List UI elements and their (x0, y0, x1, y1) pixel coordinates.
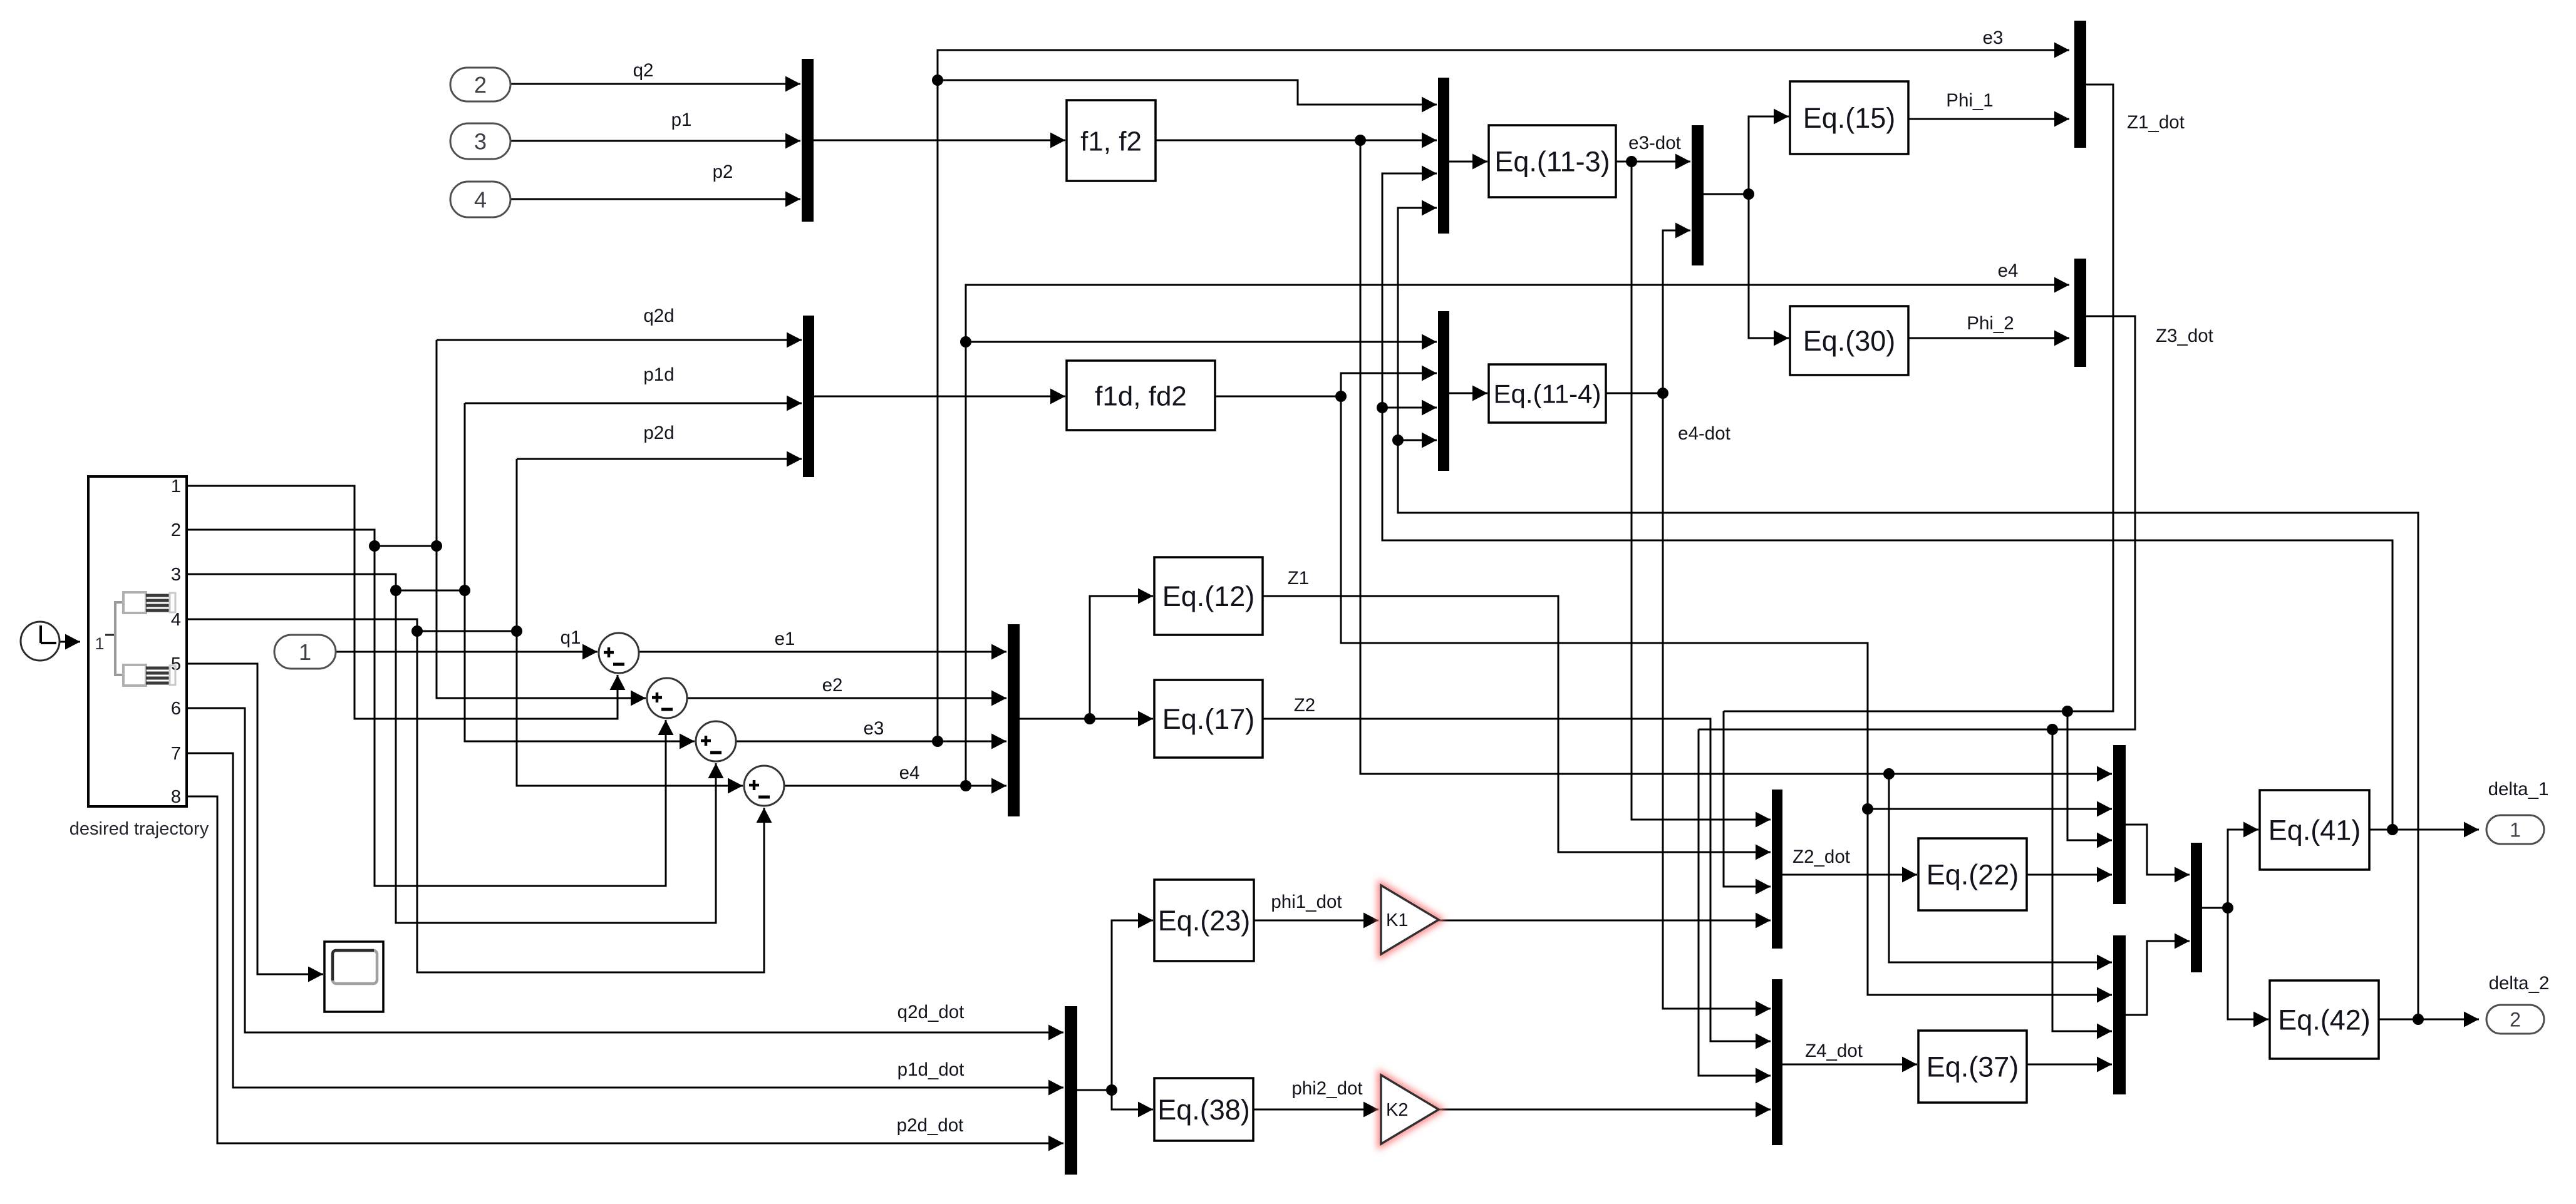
svg-text:Eq.(23): Eq.(23) (1158, 905, 1251, 937)
wire Z3_dot: mux M7 out feedback run (1699, 316, 2135, 735)
inport 2 (450, 68, 510, 101)
wire e4-dot riser up to mux M5 in2 (1663, 223, 1690, 394)
mux M3 before Eq.(11-3) (1438, 78, 1449, 234)
svg-text:K2: K2 (1386, 1100, 1408, 1120)
wire p2d to mux M2 in3 (517, 451, 802, 467)
label Phi_1 (1946, 90, 1993, 111)
svg-text:1: 1 (299, 639, 311, 665)
svg-text:Eq.(42): Eq.(42) (2278, 1004, 2371, 1036)
label q2d_dot (897, 1002, 965, 1022)
svg-text:e4: e4 (899, 763, 920, 783)
label delta_2 (2489, 973, 2550, 994)
svg-text:Z2: Z2 (1294, 695, 1315, 716)
wire branch up to Eq.(12) (1090, 589, 1153, 719)
svg-text:delta_2: delta_2 (2489, 973, 2550, 994)
wire jumper row B (390, 585, 470, 596)
svg-text:Z4_dot: Z4_dot (1805, 1041, 1863, 1061)
svg-text:p2d: p2d (643, 423, 674, 443)
svg-text:e2: e2 (822, 675, 843, 696)
wire mux M4 out to Eq.(11-4) (1449, 386, 1487, 401)
wire Z1_dot branch to mux M11 in3 (2067, 711, 2112, 848)
svg-text:8: 8 (171, 787, 181, 807)
wire f1d junction up to mux M4 in2 (1341, 366, 1437, 397)
gain K1 (1381, 885, 1439, 954)
svg-text:e3: e3 (864, 718, 884, 739)
mux M12 before Eq.(42) path (2113, 935, 2126, 1094)
wire jumper row A (369, 540, 442, 552)
wire e4: sum S4 to mux M8 (784, 778, 1006, 794)
wire e3: sum S3 to mux M8 (736, 734, 1006, 749)
svg-text:Eq.(30): Eq.(30) (1803, 325, 1896, 357)
wire mux M3 out to Eq.(11-3) (1449, 154, 1487, 170)
wire e3 branch to mux M3 in1 (938, 80, 1437, 113)
block Eq.(17) (1154, 680, 1263, 758)
wire K1 out to mux M9 in4 (1439, 913, 1771, 929)
wire jumper row C (411, 625, 522, 637)
wire branch down to Eq.(42) (2228, 908, 2268, 1027)
block Eq.(30) (1790, 306, 1908, 375)
block Eq.(15) (1790, 81, 1908, 154)
svg-text:q1: q1 (561, 627, 581, 648)
svg-text:Z3_dot: Z3_dot (2156, 326, 2213, 346)
label Z2 (1294, 695, 1315, 716)
svg-text:3: 3 (171, 565, 181, 585)
wire mux M13 out junction (2202, 902, 2233, 913)
wire Z4_dot: mux M10 out to Eq.(37) (1782, 1057, 1917, 1073)
wire branch up to Eq.(15) (1749, 109, 1789, 195)
svg-text:phi2_dot: phi2_dot (1291, 1078, 1362, 1099)
svg-text:Eq.(22): Eq.(22) (1927, 859, 2019, 891)
wire mux M8 out to Eq.(17) (1020, 711, 1153, 727)
svg-text:Eq.(17): Eq.(17) (1162, 703, 1255, 735)
sum S1 (e1) (599, 633, 639, 673)
wire p2d_dot: port8 to mux M14 in3 (187, 796, 1063, 1151)
block Eq.(37) (1918, 1031, 2027, 1103)
mux M4 before Eq.(11-4) (1438, 311, 1449, 471)
wire Phi_1: Eq.(15) to mux M6 in2 (1908, 111, 2069, 127)
wire q2: inport2 to mux M1 (510, 76, 800, 92)
block Eq.(38) (1154, 1078, 1253, 1141)
label Z1 (1288, 568, 1309, 589)
wire p1: inport3 to mux M1 (510, 133, 800, 149)
label e2 (822, 675, 843, 696)
mux M9 before Eq.(22) (1772, 790, 1782, 949)
outport 2 delta_2 (2486, 1005, 2544, 1034)
label Phi_2 (1967, 313, 2014, 334)
label e4 (899, 763, 920, 783)
wire Phi_2: Eq.(30) to mux M7 in2 (1908, 331, 2069, 346)
mux M11 before Eq.(41) path (2113, 745, 2126, 904)
mux M14 desired rates (1065, 1006, 1077, 1175)
wire mux M11 out to mux M13 in1 (2126, 825, 2190, 883)
svg-text:e1: e1 (775, 629, 795, 649)
wire K2 out to mux M10 in4 (1439, 1102, 1771, 1118)
block Eq.(42) (2270, 980, 2379, 1059)
mux M7 Z3_dot (2074, 259, 2086, 367)
svg-text:q2: q2 (633, 60, 654, 81)
svg-text:4: 4 (474, 187, 487, 212)
svg-text:6: 6 (171, 699, 181, 719)
label e3 top (1983, 28, 2004, 48)
wire clock to desired trajectory (60, 634, 80, 650)
wire Z1: Eq.(12) to mux M9 in2 (1263, 596, 1771, 860)
svg-text:e4: e4 (1998, 260, 2019, 281)
label Z1_dot (2127, 112, 2185, 133)
mux M1 inputs q2 p1 p2 (802, 59, 814, 222)
label e1 (775, 629, 795, 649)
svg-text:p2: p2 (713, 162, 733, 182)
wire delta_1 feedback tap to mux M4 in3 (1382, 400, 1437, 416)
block f1,f2 (1067, 100, 1156, 181)
label p2d (643, 423, 674, 443)
mux M8 errors e1-e4 (1008, 624, 1020, 816)
wire p1d_dot: port7 to mux M14 in2 (187, 753, 1063, 1096)
wire f1d branch to mux M11 in2 (1868, 801, 2112, 817)
inport 4 (450, 182, 510, 217)
label q2d (643, 306, 674, 326)
label Z2_dot (1792, 846, 1850, 867)
wire e2: sum S2 to mux M8 (687, 691, 1006, 706)
label e4 top (1998, 260, 2019, 281)
wire delta_1 feedback to mux M3 in3 (1377, 166, 2392, 830)
mux M10 before Eq.(37) (1772, 979, 1782, 1145)
wire e4 tap to mux M4 in1 (966, 334, 1437, 350)
wire phi2_dot: Eq.(38) to gain K2 (1253, 1102, 1379, 1118)
wire branch up to Eq.(41) (2228, 822, 2258, 908)
wire branch down to Eq.(38) (1112, 1090, 1153, 1118)
label q2 (633, 60, 654, 81)
svg-text:desired trajectory: desired trajectory (70, 819, 209, 839)
svg-text:K1: K1 (1386, 910, 1408, 930)
clock source (21, 622, 59, 661)
svg-text:Eq.(11-3): Eq.(11-3) (1494, 146, 1610, 178)
wire trajectory port4 to sum S4 minus (187, 619, 772, 972)
wire trajectory port5 to scope (187, 664, 323, 982)
wire Eq.(11-3) out to mux M5 in1 (1616, 154, 1690, 170)
wire f1,f2 branch down to mux M11 in1 (1360, 140, 2112, 782)
wire delta_2 feedback to mux M3 in4 (1392, 200, 2418, 1020)
wire Eq.(41) out to outport1 (2369, 822, 2479, 838)
mux M2 inputs q2d p1d p2d (803, 316, 814, 477)
wire p2: inport4 to mux M1 (510, 192, 800, 207)
svg-text:Phi_1: Phi_1 (1946, 90, 1993, 111)
label e3 (864, 718, 884, 739)
wire p1d riser to sum S3 plus (465, 403, 695, 749)
mux M5 e3-dot e4-dot (1692, 125, 1704, 265)
inport 1 (274, 635, 336, 669)
svg-text:3: 3 (474, 128, 487, 154)
wire f1,f2 out to mux M3 in2 (1156, 133, 1437, 148)
svg-text:e4-dot: e4-dot (1678, 423, 1730, 444)
label e3-dot (1628, 133, 1681, 153)
label p1d_dot (897, 1059, 965, 1080)
mux M13 final combiner (2191, 843, 2202, 972)
svg-text:q2d: q2d (643, 306, 674, 326)
wire e1: sum S1 to mux M8 (639, 644, 1006, 660)
wire trajectory port3 to sum S3 minus (187, 574, 724, 923)
wire f1,f2 branch to mux M12 in1 (1889, 774, 2112, 970)
label Z3_dot (2156, 326, 2213, 346)
wire mux M5 out to junction (1704, 188, 1754, 200)
block Eq.(11-3) (1489, 125, 1616, 197)
outport 1 delta_1 (2486, 815, 2544, 844)
label p1 (671, 110, 692, 130)
subsystem desired trajectory (88, 476, 187, 807)
svg-text:delta_1: delta_1 (2488, 779, 2549, 800)
svg-text:Eq.(37): Eq.(37) (1927, 1051, 2019, 1083)
svg-text:1: 1 (95, 634, 104, 653)
svg-text:f1d, fd2: f1d, fd2 (1095, 381, 1187, 411)
svg-text:Eq.(11-4): Eq.(11-4) (1494, 379, 1601, 409)
label Z4_dot (1805, 1041, 1863, 1061)
svg-text:1: 1 (171, 476, 181, 497)
label p2 (713, 162, 733, 182)
svg-text:q2d_dot: q2d_dot (897, 1002, 965, 1022)
wire Z1_dot to mux M9 in3 (1724, 711, 1771, 895)
svg-text:2: 2 (171, 520, 181, 540)
wire f1d branch down to mux M12 in2 (1341, 396, 2112, 1003)
svg-text:Z2_dot: Z2_dot (1792, 846, 1850, 867)
svg-text:p1: p1 (671, 110, 692, 130)
wire mux M1 out to f1,f2 (814, 133, 1065, 148)
block Eq.(12) (1154, 557, 1263, 635)
svg-text:e3: e3 (1983, 28, 2004, 48)
wire p2d riser to sum S4 plus (517, 459, 743, 794)
label delta_1 (2488, 779, 2549, 800)
label e4-dot (1678, 423, 1730, 444)
label q1 (561, 627, 581, 648)
wire mux M12 out to mux M13 in2 (2126, 934, 2190, 1016)
sum S3 (e3) (696, 721, 736, 761)
wire e4 riser and top run to mux M7 in1 (960, 277, 2069, 786)
wire trajectory port2 to sum S2 minus (187, 530, 674, 886)
wire q2d riser to sum S2 plus (437, 340, 646, 706)
inport 3 (450, 123, 510, 159)
svg-text:Eq.(15): Eq.(15) (1803, 102, 1896, 134)
block f1d,fd2 (1067, 361, 1215, 430)
wire Eq.(11-4) out to junction (1606, 388, 1668, 399)
svg-text:e3-dot: e3-dot (1628, 133, 1681, 153)
scope block (324, 942, 383, 1012)
label phi1_dot (1271, 892, 1342, 912)
wire Z2: Eq.(17) to mux M10 in2 (1263, 719, 1771, 1049)
label phi2_dot (1291, 1078, 1362, 1099)
wire Eq.(37) out to mux M12 in4 (2027, 1057, 2112, 1073)
svg-text:p1d: p1d (643, 364, 674, 385)
wire Z3_dot branch to mux M12 in3 (2052, 729, 2112, 1039)
gain K2 (1381, 1075, 1439, 1144)
svg-text:Phi_2: Phi_2 (1967, 313, 2014, 334)
sum S2 (e2) (647, 678, 687, 718)
block Eq.(11-4) (1489, 364, 1606, 423)
wire e3 riser and top run to mux M6 in1 (932, 43, 2069, 742)
wire Eq.(22) out to mux M11 in4 (2027, 867, 2112, 883)
wire branch up to Eq.(23) (1112, 913, 1153, 1091)
svg-text:p1d_dot: p1d_dot (897, 1059, 965, 1080)
svg-text:Eq.(12): Eq.(12) (1162, 580, 1255, 612)
wire mux M14 out junction (1077, 1084, 1117, 1096)
wire delta_2 feedback tap to mux M4 in4 (1398, 433, 1437, 448)
wire Z3_dot to mux M10 in3 (1699, 729, 1771, 1084)
sum S4 (e4) (744, 766, 784, 806)
label p2d_dot (897, 1115, 964, 1136)
wire e3-dot riser down to mux M9 in1 (1632, 162, 1771, 828)
wire mux M2 out to f1d,fd2 (814, 389, 1065, 404)
svg-text:p2d_dot: p2d_dot (897, 1115, 964, 1136)
block Eq.(22) (1918, 838, 2027, 910)
wire branch down to Eq.(30) (1749, 194, 1789, 346)
wire Eq.(42) out to outport2 (2379, 1012, 2479, 1027)
label desired trajectory (70, 819, 209, 839)
svg-text:Eq.(41): Eq.(41) (2268, 815, 2361, 846)
svg-text:2: 2 (474, 72, 487, 98)
svg-text:f1, f2: f1, f2 (1080, 126, 1142, 157)
wire q2d to mux M2 in1 (437, 332, 802, 348)
svg-text:Z1_dot: Z1_dot (2127, 112, 2185, 133)
wire Z1_dot: mux M6 out feedback run (1724, 85, 2113, 717)
svg-text:1: 1 (2510, 819, 2521, 841)
block Eq.(23) (1154, 880, 1254, 961)
wire f1d,fd2 out to junction (1215, 391, 1347, 402)
wire q1: inport1 to sum S1 (336, 644, 597, 660)
wire phi1_dot: Eq.(23) to gain K1 (1254, 913, 1379, 929)
block Eq.(41) (2260, 790, 2369, 870)
svg-text:Z1: Z1 (1288, 568, 1309, 589)
wire e4-dot riser down to mux M10 in1 (1663, 393, 1771, 1017)
wire p1d to mux M2 in2 (465, 396, 802, 411)
svg-text:7: 7 (171, 744, 181, 764)
mux M6 Z1_dot (2074, 21, 2086, 148)
svg-text:Eq.(38): Eq.(38) (1157, 1094, 1250, 1126)
wire Z2_dot: mux M9 out to Eq.(22) (1782, 867, 1917, 883)
label p1d (643, 364, 674, 385)
wire trajectory port1 to sum S1 minus (187, 486, 626, 719)
wire q2d_dot: port6 to mux M14 in1 (187, 708, 1063, 1041)
svg-text:2: 2 (2510, 1009, 2521, 1031)
svg-text:phi1_dot: phi1_dot (1271, 892, 1342, 912)
